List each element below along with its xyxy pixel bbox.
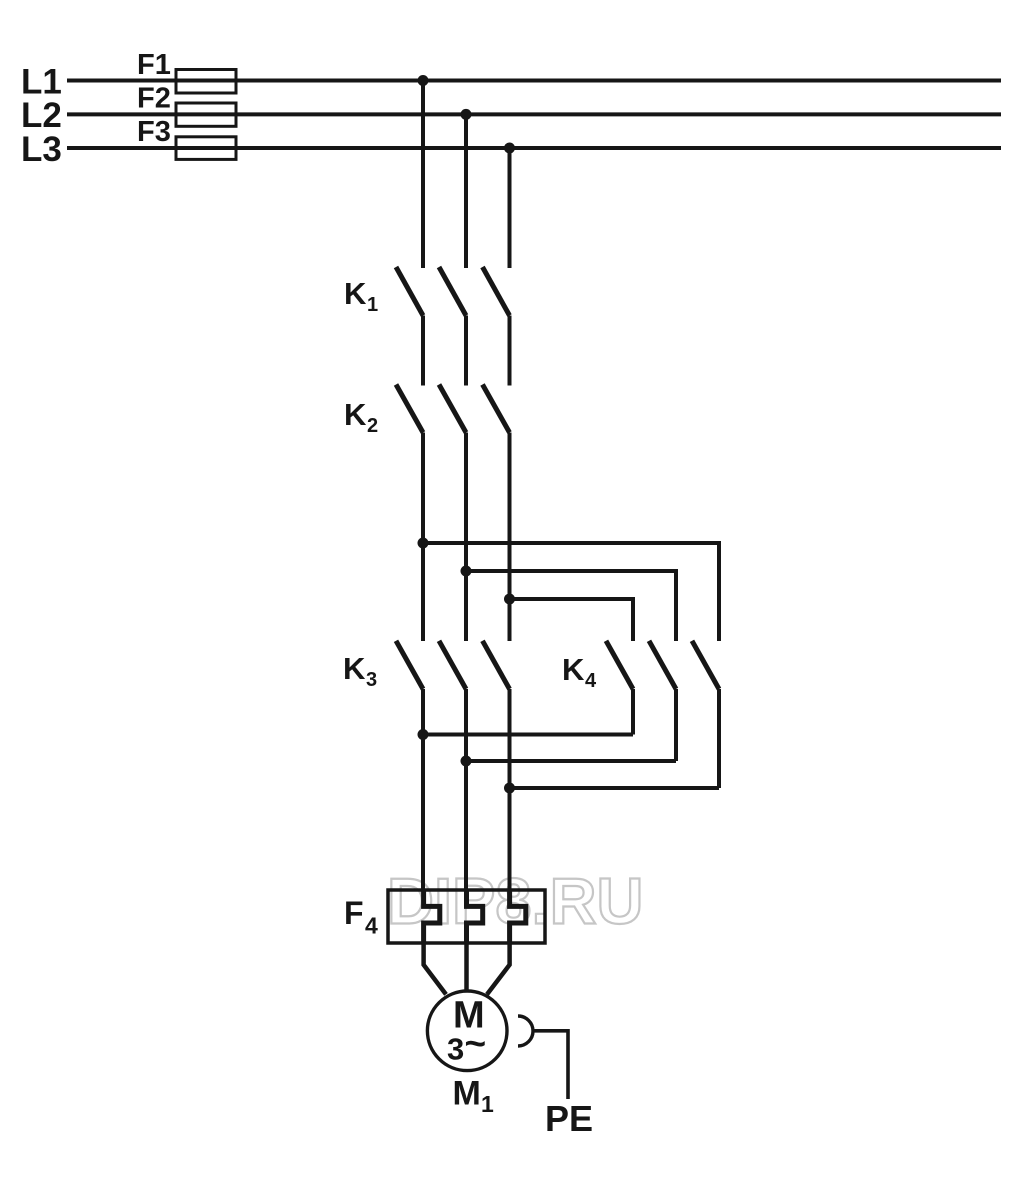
svg-text:1: 1 <box>481 1091 494 1117</box>
contactor K4 pole 3 blade <box>692 641 719 689</box>
svg-text:M: M <box>453 1074 481 1112</box>
svg-text:L3: L3 <box>21 130 62 169</box>
wire branch B vertical down to K4 pole 2 <box>674 569 678 641</box>
wire L3 bus <box>67 146 1001 150</box>
svg-text:4: 4 <box>365 913 378 939</box>
wire branch A horizontal to K4 pole 3 <box>423 541 719 545</box>
contactor K2 pole 3 blade <box>483 385 510 433</box>
wire A from K2 down to K3 <box>421 433 425 642</box>
junction dot on L3 <box>504 143 515 154</box>
contactor K4 pole 2 blade <box>649 641 676 689</box>
contactor K1 pole 1 blade <box>396 267 423 316</box>
svg-text:F3: F3 <box>137 116 171 148</box>
junction node A to K4 branch <box>418 538 429 549</box>
junction dot on L2 <box>461 109 472 120</box>
wire PE horizontal <box>533 1029 568 1033</box>
wire tie C output to K4 pole 3 <box>510 786 720 790</box>
svg-text:~: ~ <box>465 1023 487 1064</box>
fuse F1 <box>176 70 236 94</box>
overload F4 heater element phase A <box>424 890 440 943</box>
svg-text:F1: F1 <box>137 49 171 81</box>
wire A between K1 and K2 <box>421 316 425 386</box>
contactor K3 label <box>343 651 377 691</box>
contactor K3 pole 2 blade <box>439 641 466 689</box>
wire K4 pole 1 output drop <box>631 689 635 735</box>
wire L2 bus <box>67 112 1001 116</box>
wire B between K1 and K2 <box>464 316 468 386</box>
wire PE vertical <box>566 1029 570 1099</box>
wire tie A output to K4 pole 1 <box>423 733 633 737</box>
wire tie B output to K4 pole 2 <box>466 759 676 763</box>
motor M1 circle <box>427 991 507 1071</box>
wire B from K3 down to F4 <box>464 689 468 890</box>
junction node C to K4 branch <box>504 594 515 605</box>
svg-text:K: K <box>343 651 366 686</box>
overload relay F4 box <box>388 890 545 943</box>
motor M1 reference label <box>453 1074 495 1117</box>
wire K4 pole 2 output drop <box>674 689 678 761</box>
svg-text:F: F <box>344 895 364 931</box>
overload relay F4 label <box>344 895 378 939</box>
wire branch A vertical down to K4 pole 3 <box>717 541 721 641</box>
contactor K1 pole 3 blade <box>483 267 510 316</box>
wire phase C drop from L3 to K1 <box>508 148 512 268</box>
junction dot B output <box>461 756 472 767</box>
svg-text:K: K <box>344 276 367 311</box>
svg-text:3: 3 <box>447 1032 464 1067</box>
wire branch C horizontal to K4 pole 1 <box>510 597 634 601</box>
contactor K3 pole 1 blade <box>396 641 423 689</box>
junction dot C output <box>504 783 515 794</box>
contactor K4 pole 1 blade <box>606 641 633 689</box>
fuse F2 <box>176 103 236 126</box>
contactor K3 pole 3 blade <box>483 641 510 689</box>
svg-text:K: K <box>344 397 367 432</box>
svg-text:4: 4 <box>585 670 597 692</box>
overload F4 heater element phase B <box>467 890 483 943</box>
junction dot A output <box>418 729 429 740</box>
contactor K2 pole 2 blade <box>439 385 466 433</box>
svg-text:3: 3 <box>366 669 377 691</box>
wire branch B horizontal to K4 pole 2 <box>466 569 676 573</box>
wire K4 pole 3 output drop <box>717 689 721 788</box>
wire F4 to motor terminal W <box>487 943 510 994</box>
contactor K2 pole 1 blade <box>396 385 423 433</box>
wire A from K3 down to F4 <box>421 689 425 890</box>
junction dot on L1 <box>418 75 429 86</box>
svg-text:PE: PE <box>545 1098 593 1139</box>
wire phase A drop from L1 to K1 <box>421 81 425 269</box>
PE terminal arc on motor <box>518 1016 533 1046</box>
overload F4 heater element phase C <box>510 890 526 943</box>
junction node B to K4 branch <box>461 566 472 577</box>
wire C between K1 and K2 <box>508 316 512 386</box>
wire B from K2 down to K3 <box>464 433 468 642</box>
wire F4 to motor terminal U <box>424 943 446 994</box>
wire C from K3 down to F4 <box>508 689 512 890</box>
fuse F3 <box>176 137 236 160</box>
motor M1 "3~" text <box>447 1023 486 1067</box>
wire F4 to motor terminal V <box>464 943 469 992</box>
contactor K4 label <box>562 652 597 692</box>
contactor K1 label <box>344 276 378 316</box>
wire L1 bus <box>67 79 1001 83</box>
svg-text:1: 1 <box>367 294 378 316</box>
wire branch C vertical down to K4 pole 1 <box>631 597 635 641</box>
svg-text:F2: F2 <box>137 83 171 115</box>
wire phase B drop from L2 to K1 <box>464 114 468 268</box>
svg-text:K: K <box>562 652 585 687</box>
svg-text:2: 2 <box>367 415 378 437</box>
contactor K2 label <box>344 397 378 437</box>
contactor K1 pole 2 blade <box>439 267 466 316</box>
wire C from K2 down to K3 <box>508 433 512 642</box>
